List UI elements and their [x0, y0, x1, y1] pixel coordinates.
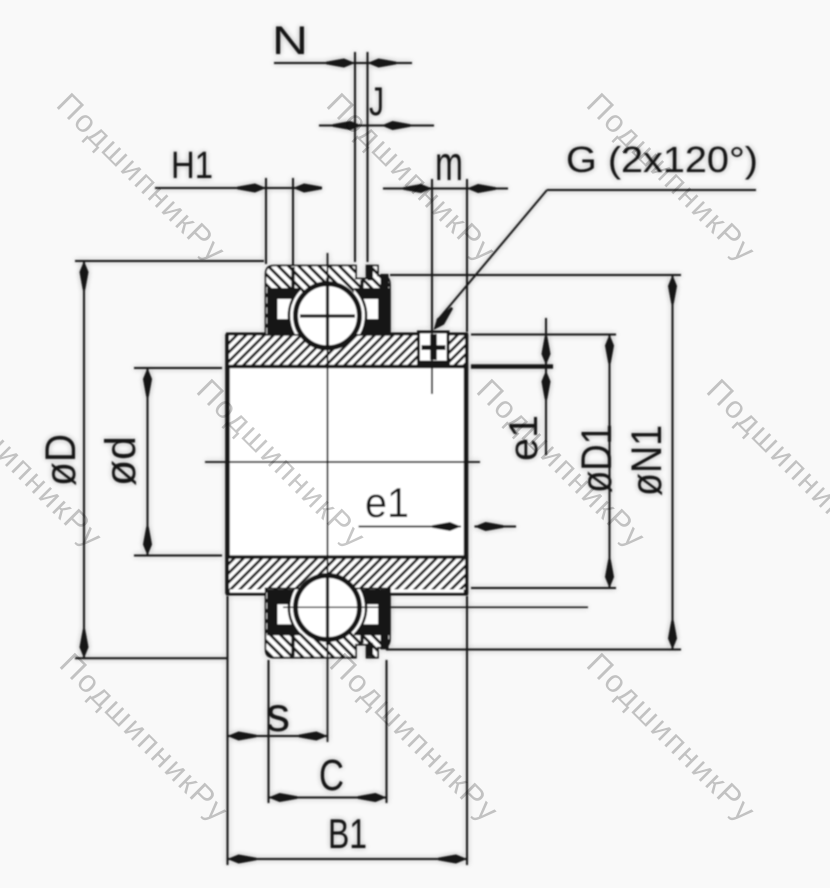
collar slot tab (bottom)	[368, 643, 374, 657]
dim phiD1 line	[609, 335, 611, 589]
svg-text:B1: B1	[328, 810, 367, 857]
svg-text:ПодшипникРу: ПодшипникРу	[320, 86, 503, 269]
dim C arrows	[269, 793, 298, 802]
dim phiD line	[83, 261, 85, 658]
seal block left (bottom)	[267, 589, 301, 635]
svg-text:e1: e1	[365, 479, 409, 526]
dim H1 line	[155, 187, 319, 189]
arrowheads	[80, 59, 678, 864]
dim H1 arrows	[237, 184, 266, 193]
inner ring top hatched wall	[229, 336, 465, 367]
leader G arrowhead	[430, 305, 456, 333]
svg-text:N: N	[272, 19, 308, 63]
dim J arrows	[333, 121, 362, 130]
dim N arrows	[326, 59, 355, 68]
collar right wall boundary (top)	[360, 280, 363, 293]
svg-text:ПодшипникРу: ПодшипникРу	[580, 646, 763, 829]
set screw G	[417, 332, 450, 368]
dim phid arrows	[143, 368, 152, 397]
dim N ext lines	[354, 52, 356, 262]
svg-text:ПодшипникРу: ПодшипникРу	[53, 646, 236, 829]
dim s line	[228, 735, 328, 737]
dim m arrows	[403, 184, 432, 193]
dim phiD arrows	[80, 261, 89, 290]
dim phid line	[147, 368, 149, 556]
svg-text:s: s	[266, 689, 290, 742]
outer ring + eccentric collar (top)	[264, 264, 392, 336]
dim B1 ext lines	[227, 596, 229, 865]
dim m line	[383, 188, 508, 190]
dim phid ext lines	[134, 367, 222, 369]
dim phiD ext lines	[75, 260, 264, 262]
ball (top)	[296, 284, 360, 348]
dim e1 horizontal lines	[359, 526, 462, 528]
ball white clearance arc (bottom)	[289, 569, 366, 646]
seal block right (bottom)	[354, 589, 389, 635]
ball white clearance arc (top)	[289, 277, 366, 354]
dim phiN1 arrows	[668, 275, 677, 304]
collar left wall boundary (bottom)	[291, 630, 294, 656]
dim H1 ext lines	[265, 178, 267, 264]
dim m ext / screw centerline	[431, 179, 433, 394]
collar right wall solid (top)	[381, 274, 389, 334]
svg-text:H1: H1	[171, 145, 213, 187]
inner ring bottom hatched wall	[229, 557, 465, 590]
ball (bottom)	[296, 576, 360, 640]
svg-text:ПодшипникРу: ПодшипникРу	[700, 372, 830, 555]
main vertical centerline	[327, 253, 329, 742]
collar slot tab (top)	[368, 267, 374, 281]
dim phiD1 arrows	[605, 335, 614, 364]
dim phiN1 line	[672, 275, 674, 650]
dim C ext lines	[268, 660, 270, 803]
leader G underline	[547, 189, 756, 191]
dim B1 arrows	[228, 855, 257, 864]
dim s arrows	[228, 732, 257, 741]
svg-text:ПодшипникРу: ПодшипникРу	[323, 646, 506, 829]
dim phiN1 ext lines	[390, 274, 681, 276]
dim J line	[319, 125, 434, 127]
outer ring + eccentric collar (bottom)	[264, 587, 392, 659]
inner ring sleeve body	[228, 334, 467, 594]
svg-text:øN1: øN1	[623, 425, 671, 496]
seal block right (top)	[354, 288, 389, 334]
dim N line	[274, 62, 412, 64]
svg-text:C: C	[319, 751, 344, 800]
dim e1 right line	[545, 318, 547, 455]
dim e1 horizontal arrows	[432, 522, 461, 531]
leader G diagonal	[437, 190, 547, 321]
seal block left (top)	[267, 288, 301, 334]
e1 right thick reference line	[471, 364, 553, 368]
collar left wall boundary (top)	[291, 267, 294, 293]
ball centerline ticks (bottom)	[283, 606, 588, 608]
main horizontal centerline	[205, 461, 480, 463]
dim phiD1 ext lines	[471, 334, 616, 336]
dim C line	[269, 797, 387, 799]
collar right wall solid (bottom)	[381, 589, 389, 649]
dim B1 line	[228, 858, 468, 860]
svg-text:ød: ød	[97, 436, 145, 486]
dim e1 right arrows	[542, 336, 551, 365]
collar right wall boundary (bottom)	[360, 630, 363, 643]
ball centerline ticks (top)	[300, 314, 355, 317]
